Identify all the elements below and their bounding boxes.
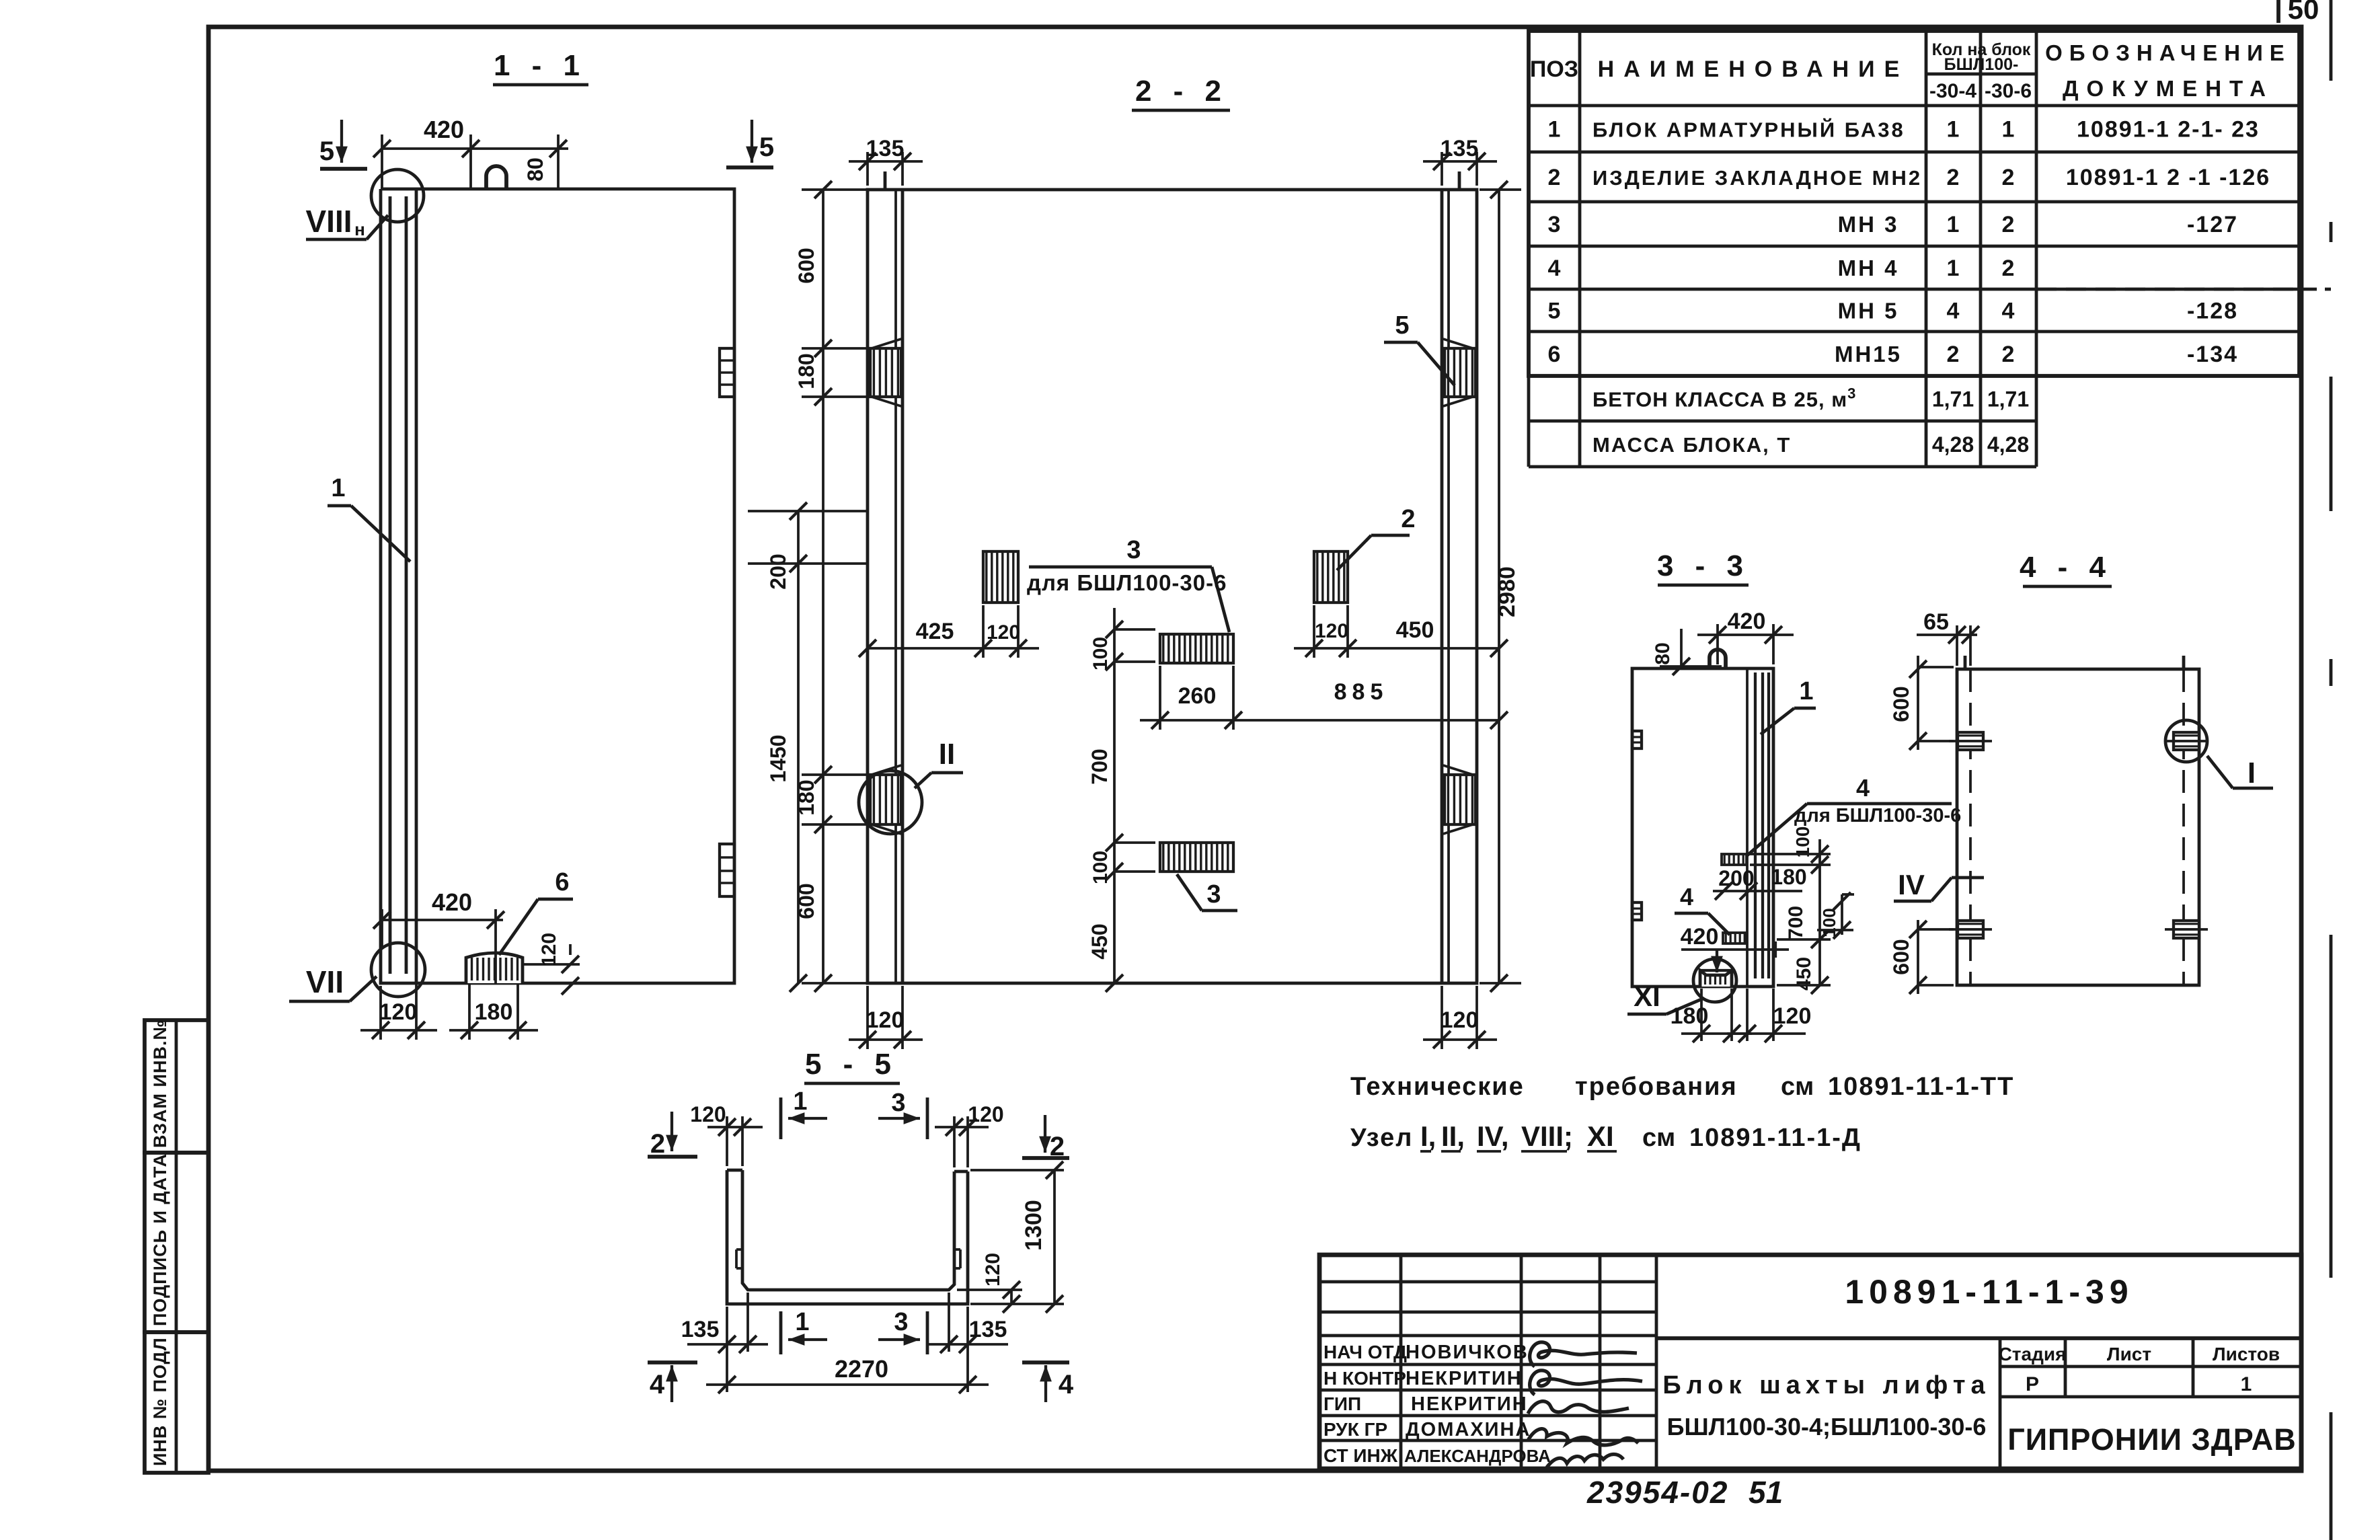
view 2-2 outline <box>868 190 1477 983</box>
svg-text:200: 200 <box>1718 866 1754 890</box>
svg-text:ПОЗ: ПОЗ <box>1530 56 1578 82</box>
view 5-5 embed mark left wall <box>736 1248 742 1251</box>
view 4-4 embed left upper <box>1958 732 1983 750</box>
view 3-3 embed 4 lower <box>1723 933 1746 944</box>
svg-text:4: 4 <box>1548 256 1561 281</box>
svg-text:135: 135 <box>969 1317 1007 1342</box>
view 4-4 node circle I <box>2165 720 2207 762</box>
view 1-1 dim 120 right of block6 <box>523 963 580 966</box>
view 2-2 left wall lines <box>894 190 897 983</box>
view 1-1 embed on right edge upper <box>720 348 734 397</box>
view 2-2 embed MH5 left wall lower <box>870 775 901 824</box>
svg-text:10891-11-1-39: 10891-11-1-39 <box>1845 1273 2133 1311</box>
view 3-3 wall inner edge line <box>1746 668 1749 987</box>
view 2-2 embed block D MH3 lower <box>1160 843 1233 872</box>
svg-text:4: 4 <box>1680 883 1693 911</box>
svg-text:НЕКРИТИН: НЕКРИТИН <box>1411 1393 1528 1415</box>
view 1-1 embed block pos 6 bottom <box>466 953 523 983</box>
svg-text:3 - 3: 3 - 3 <box>1657 549 1750 582</box>
svg-text:180: 180 <box>794 353 818 389</box>
svg-text:-30-4: -30-4 <box>1929 80 1976 102</box>
svg-text:РУК ГР: РУК ГР <box>1323 1419 1387 1440</box>
svg-text:2: 2 <box>1947 342 1960 367</box>
svg-text:700: 700 <box>1785 906 1807 939</box>
left strip divider <box>175 1020 178 1473</box>
title block left grid rows empty <box>1319 1280 1656 1284</box>
svg-text:65: 65 <box>1923 609 1949 635</box>
view 1-1 dim 420 top <box>381 134 383 189</box>
svg-text:Н КОНТР: Н КОНТР <box>1323 1368 1406 1389</box>
view 1-1 dim 80 top <box>557 134 560 189</box>
svg-text:120: 120 <box>968 1102 1003 1126</box>
view 3-3 dim 180 bottom <box>1700 989 1703 1041</box>
page number 50 top right <box>2276 0 2280 23</box>
view 3-3 dim 120 bottom <box>1746 989 1749 1041</box>
svg-text:120: 120 <box>379 999 418 1025</box>
svg-text:180: 180 <box>794 779 818 815</box>
svg-text:СТ ИНЖ: СТ ИНЖ <box>1323 1445 1398 1466</box>
svg-text:50: 50 <box>2288 0 2319 25</box>
svg-text:1: 1 <box>1799 677 1813 705</box>
svg-text:4: 4 <box>1947 299 1960 324</box>
view 2-2 dim 425 120 under block A <box>982 605 985 658</box>
svg-text:5 - 5: 5 - 5 <box>805 1048 898 1081</box>
svg-text:100: 100 <box>1819 908 1839 937</box>
title block outer <box>1319 1255 2301 1469</box>
view 5-5 embed mark right wall <box>954 1248 960 1251</box>
svg-text:1 - 1: 1 - 1 <box>494 49 586 82</box>
svg-text:80: 80 <box>1652 642 1674 664</box>
view 4-4 rebar tick above left <box>1964 656 1967 669</box>
svg-text:420: 420 <box>432 888 472 916</box>
svg-text:420: 420 <box>1681 924 1719 950</box>
svg-text:885: 885 <box>1334 679 1389 705</box>
svg-text:МН15: МН15 <box>1835 342 1902 367</box>
svg-text:600: 600 <box>794 883 818 919</box>
svg-text:Блок шахты лифта: Блок шахты лифта <box>1662 1371 1990 1399</box>
svg-text:МН 5: МН 5 <box>1838 299 1899 323</box>
svg-text:10891-11-1-ТТ: 10891-11-1-ТТ <box>1828 1073 2014 1101</box>
dim chain 200 1450 <box>797 511 800 983</box>
view 5-5 dim 120 slab <box>957 1288 1022 1291</box>
view 5-5 dim 135 bottom right <box>948 1293 950 1352</box>
view 2-2 dim 120 bottom left <box>866 986 869 1049</box>
svg-text:ИЗДЕЛИЕ ЗАКЛАДНОЕ МН2: ИЗДЕЛИЕ ЗАКЛАДНОЕ МН2 <box>1592 166 1922 190</box>
svg-text:135: 135 <box>1441 136 1479 161</box>
view 5-5 dim 1300 right <box>970 1169 1064 1171</box>
svg-text:Технические: Технические <box>1350 1073 1525 1101</box>
svg-text:4: 4 <box>1856 774 1870 802</box>
view 3-3 vertical dims 100 700 450 <box>1818 839 1821 985</box>
svg-text:IV: IV <box>1898 869 1925 900</box>
svg-text:2: 2 <box>2002 165 2015 190</box>
view 5-5 dim 135 bottom left <box>726 1307 728 1392</box>
view 2-2 right wall lines <box>1441 190 1444 983</box>
svg-text:VIII;: VIII; <box>1521 1120 1573 1152</box>
svg-text:1: 1 <box>1947 117 1960 143</box>
svg-text:требования: требования <box>1575 1073 1738 1101</box>
svg-text:10891-1 2 -1 -126: 10891-1 2 -1 -126 <box>2066 165 2270 190</box>
view 4-4 dashed line right <box>2182 669 2185 985</box>
svg-text:120: 120 <box>690 1102 726 1126</box>
view 3-3 dim 200 180 mid <box>1713 890 1802 892</box>
svg-text:БШЛ100-30-4;БШЛ100-30-6: БШЛ100-30-4;БШЛ100-30-6 <box>1667 1413 1987 1440</box>
svg-text:II: II <box>939 738 955 771</box>
svg-text:1: 1 <box>793 1087 807 1116</box>
svg-text:БШЛ100-: БШЛ100- <box>1944 55 2019 74</box>
svg-text:1,71: 1,71 <box>1987 387 2029 412</box>
svg-text:н: н <box>354 219 365 239</box>
svg-text:для БШЛ100-30-6: для БШЛ100-30-6 <box>1794 805 1961 826</box>
svg-text:Узел: Узел <box>1350 1124 1413 1152</box>
svg-text:120: 120 <box>987 621 1020 644</box>
svg-text:135: 135 <box>866 136 905 161</box>
view 2-2 dim 2980 right <box>1480 188 1521 191</box>
view 4-4 outline <box>1957 669 2199 985</box>
svg-text:3: 3 <box>891 1089 905 1117</box>
parts table outer border <box>1529 31 2299 376</box>
view 2-2 vertical dim 100 700 100 450 <box>1113 608 1116 983</box>
title block stage grid <box>1999 1338 2002 1469</box>
view 2-2 dim 260 885 <box>1159 666 1161 730</box>
svg-text:2: 2 <box>2002 342 2015 367</box>
svg-text:БЛОК АРМАТУРНЫЙ БА38: БЛОК АРМАТУРНЫЙ БА38 <box>1592 118 1905 142</box>
svg-text:ДОМАХИНА: ДОМАХИНА <box>1406 1419 1531 1440</box>
view 1-1 dim 420 bottom <box>381 909 383 947</box>
svg-text:100: 100 <box>1089 637 1112 670</box>
svg-text:120: 120 <box>982 1253 1004 1286</box>
svg-text:135: 135 <box>681 1317 720 1342</box>
svg-text:1: 1 <box>1947 212 1960 237</box>
view 4-4 dim 600 lower <box>1918 928 1954 931</box>
svg-text:1: 1 <box>1947 256 1960 281</box>
svg-text:600: 600 <box>1889 939 1913 974</box>
svg-text:1: 1 <box>1548 117 1561 143</box>
view 2-2 embed MH5 right wall lower <box>1445 775 1475 824</box>
svg-text:2: 2 <box>650 1129 665 1159</box>
svg-text:-30-6: -30-6 <box>1985 80 2032 102</box>
view 3-3 node circle XI <box>1693 959 1736 1002</box>
svg-text:4,28: 4,28 <box>1987 432 2029 457</box>
parts table column lines <box>1578 31 1582 467</box>
svg-text:6: 6 <box>555 868 569 896</box>
svg-text:100: 100 <box>1089 851 1112 884</box>
view 4-4 dim 600 upper <box>1918 666 1954 668</box>
svg-text:120: 120 <box>538 933 560 966</box>
svg-text:1450: 1450 <box>766 734 790 782</box>
svg-text:260: 260 <box>1178 683 1217 709</box>
svg-text:ОБОЗНАЧЕНИЕ: ОБОЗНАЧЕНИЕ <box>2045 40 2291 65</box>
view 3-3 armature lines pos 1 <box>1754 672 1757 978</box>
svg-text:II,: II, <box>1441 1120 1465 1152</box>
dim chain 600 180 180 600 <box>822 190 824 983</box>
svg-text:VIII: VIII <box>305 204 352 239</box>
view 2-2 dim 120 450 under block C <box>1313 605 1315 658</box>
svg-text:5: 5 <box>1548 299 1561 324</box>
view 2-2 node circle II <box>859 771 922 834</box>
view 2-2 rebar tick above left wall <box>884 171 887 190</box>
svg-text:2: 2 <box>2002 256 2015 281</box>
svg-text:450: 450 <box>1087 923 1112 959</box>
view 3-3 embed block XI MH15 <box>1700 970 1732 987</box>
svg-text:3: 3 <box>1126 536 1141 564</box>
svg-text:ДОКУМЕНТА: ДОКУМЕНТА <box>2063 76 2274 101</box>
note Узел underlines for node numerals <box>1420 1150 1431 1153</box>
view 5-5 dim 120 top right <box>953 1116 956 1167</box>
svg-text:200: 200 <box>766 553 790 589</box>
svg-text:120: 120 <box>1441 1007 1479 1033</box>
view 2-2 embed MH5 right wall upper <box>1445 348 1475 397</box>
view 2-2 dim 135 top right <box>1441 152 1443 186</box>
svg-text:4: 4 <box>650 1370 665 1399</box>
svg-text:180: 180 <box>1671 1003 1709 1029</box>
view 2-2 embed MH5 left wall upper <box>870 348 901 397</box>
view 3-3 lifting hook <box>1710 650 1726 668</box>
svg-text:1: 1 <box>2241 1373 2252 1395</box>
view 3-3 embed tab left edge upper <box>1632 731 1642 748</box>
svg-text:БЕТОН КЛАССА В 25, м3: БЕТОН КЛАССА В 25, м3 <box>1592 385 1856 412</box>
view 1-1 lifting hook <box>486 166 506 189</box>
svg-text:ПОДПИСЬ И ДАТА: ПОДПИСЬ И ДАТА <box>150 1153 170 1326</box>
svg-text:5: 5 <box>1395 311 1409 340</box>
svg-text:XI: XI <box>1587 1120 1614 1152</box>
view 4-4 embed left lower <box>1958 921 1983 938</box>
svg-text:80: 80 <box>523 157 547 182</box>
svg-text:4: 4 <box>2002 299 2015 324</box>
svg-text:МН 4: МН 4 <box>1838 256 1899 280</box>
svg-text:2270: 2270 <box>835 1355 888 1383</box>
svg-text:600: 600 <box>794 247 818 283</box>
view 1-1 dim 120 bottom <box>379 986 382 1040</box>
svg-text:НОВИЧКОВ: НОВИЧКОВ <box>1406 1342 1529 1363</box>
view 3-3 dim 80 top <box>1660 665 1722 668</box>
svg-text:см: см <box>1642 1124 1675 1152</box>
view 1-1 node circle VIII <box>371 169 424 222</box>
view 5-5 U-channel outline <box>727 1170 968 1304</box>
svg-text:10891-11-1-Д: 10891-11-1-Д <box>1689 1124 1861 1152</box>
svg-text:МАССА БЛОКА, Т: МАССА БЛОКА, Т <box>1592 433 1791 457</box>
view 2-2 dim 135 top left <box>866 152 869 186</box>
view 4-4 embed right upper <box>2174 732 2199 750</box>
svg-text:-128: -128 <box>2187 299 2238 324</box>
view 4-4 dashed line left <box>1969 669 1972 985</box>
sheet edge dashed line right <box>2330 0 2333 81</box>
parts table header Кол на блок subdivider <box>1926 73 2036 76</box>
svg-text:180: 180 <box>475 999 513 1025</box>
svg-text:420: 420 <box>424 116 464 143</box>
svg-text:2980: 2980 <box>1494 566 1520 617</box>
svg-text:180: 180 <box>1771 865 1806 889</box>
svg-text:120: 120 <box>1315 620 1348 642</box>
svg-text:НАЧ ОТД: НАЧ ОТД <box>1323 1342 1407 1362</box>
svg-text:120: 120 <box>1773 1003 1812 1029</box>
view 3-3 outline <box>1632 668 1773 987</box>
svg-text:51: 51 <box>1749 1475 1783 1510</box>
svg-text:2: 2 <box>1947 165 1960 190</box>
view 1-1 wall inner edge line <box>415 189 418 983</box>
svg-text:600: 600 <box>1889 686 1913 722</box>
svg-text:I: I <box>2248 757 2256 790</box>
left strip ВЗАМ ИНВ № <box>145 1020 208 1153</box>
svg-text:ГИП: ГИП <box>1323 1393 1361 1414</box>
svg-text:АЛЕКСАНДРОВА: АЛЕКСАНДРОВА <box>1404 1446 1551 1466</box>
svg-text:см: см <box>1781 1073 1814 1101</box>
svg-text:ГИПРОНИИ ЗДРАВ: ГИПРОНИИ ЗДРАВ <box>2007 1422 2297 1457</box>
svg-text:МН 3: МН 3 <box>1838 212 1899 237</box>
svg-text:НЕКРИТИН: НЕКРИТИН <box>1406 1368 1523 1389</box>
svg-text:для БШЛ100-30-6: для БШЛ100-30-6 <box>1027 570 1227 595</box>
svg-text:Листов: Листов <box>2213 1344 2280 1364</box>
svg-text:120: 120 <box>866 1007 905 1033</box>
svg-text:IV,: IV, <box>1477 1120 1509 1152</box>
svg-text:3: 3 <box>1206 880 1221 909</box>
svg-text:6: 6 <box>1548 342 1561 367</box>
view 4-4 embed right lower <box>2174 921 2199 938</box>
svg-text:420: 420 <box>1728 609 1766 634</box>
svg-text:XI: XI <box>1634 980 1660 1012</box>
svg-text:450: 450 <box>1396 617 1434 643</box>
svg-text:4 - 4: 4 - 4 <box>2020 551 2112 584</box>
view 3-3 dim 420 top <box>1716 624 1719 664</box>
view 1-1 armature block lines pos1 <box>389 196 392 974</box>
svg-text:2 - 2: 2 - 2 <box>1135 75 1228 108</box>
svg-text:2: 2 <box>2002 212 2015 237</box>
svg-text:1: 1 <box>331 474 345 502</box>
view 2-2 embed block C MH2 <box>1314 551 1348 603</box>
view 2-2 rebar tick above right wall <box>1458 171 1461 190</box>
svg-text:ВЗАМ ИНВ.№: ВЗАМ ИНВ.№ <box>150 1019 170 1148</box>
svg-text:1: 1 <box>795 1308 809 1336</box>
svg-text:2: 2 <box>1401 505 1415 533</box>
svg-text:5: 5 <box>319 137 334 166</box>
left strip ИНВ № ПОДЛ <box>145 1332 208 1473</box>
view 1-1 node circle VII <box>371 943 425 997</box>
svg-text:НАИМЕНОВАНИЕ: НАИМЕНОВАНИЕ <box>1598 56 1909 82</box>
view 4-4 rebar tick above right <box>2182 656 2186 669</box>
view 5-5 dim 2270 <box>706 1383 989 1386</box>
svg-text:Р: Р <box>2026 1373 2039 1395</box>
svg-text:Стадия: Стадия <box>1999 1344 2067 1364</box>
svg-text:VII: VII <box>306 964 344 999</box>
view 3-3 embed 4 upper <box>1722 854 1746 865</box>
view 1-1 embed on right edge lower <box>720 844 734 896</box>
view 2-2 embed block B MH3 <box>1160 634 1233 663</box>
view 3-3 vertical dim 100 right <box>1841 894 1843 935</box>
svg-text:-127: -127 <box>2187 212 2238 237</box>
svg-text:10891-1 2-1- 23: 10891-1 2-1- 23 <box>2077 117 2260 143</box>
view 5-5 dim 120 top left <box>726 1116 728 1166</box>
svg-text:3: 3 <box>894 1308 908 1336</box>
view 2-2 dim 120 bottom right <box>1441 986 1443 1049</box>
svg-text:1300: 1300 <box>1021 1200 1046 1251</box>
svg-text:23954-02: 23954-02 <box>1586 1475 1728 1510</box>
svg-text:ИНВ № ПОДЛ: ИНВ № ПОДЛ <box>150 1337 170 1466</box>
left strip ПОДПИСЬ И ДАТА <box>145 1153 208 1332</box>
view 2-2 embed block A MH3-30-6 <box>983 551 1018 603</box>
svg-text:5: 5 <box>759 132 774 162</box>
svg-text:700: 700 <box>1087 748 1112 784</box>
svg-text:I,: I, <box>1420 1120 1436 1152</box>
svg-text:4,28: 4,28 <box>1932 432 1974 457</box>
svg-text:425: 425 <box>916 619 954 644</box>
title block doc number band line <box>1656 1336 2301 1340</box>
svg-text:2: 2 <box>1548 165 1561 190</box>
svg-text:Лист: Лист <box>2107 1344 2151 1364</box>
view 1-1 dim 180 bottom <box>468 983 471 1040</box>
view 1-1 outline <box>381 189 734 983</box>
svg-text:3: 3 <box>1548 212 1561 237</box>
svg-text:-134: -134 <box>2187 342 2238 367</box>
view 3-3 embed tab left edge lower <box>1632 902 1642 920</box>
title block left grid columns <box>1399 1255 1403 1469</box>
title block left grid rows names <box>1319 1363 1656 1366</box>
parts table row lines <box>1529 104 2299 108</box>
svg-text:1: 1 <box>2002 117 2015 143</box>
svg-text:4: 4 <box>1059 1370 1074 1399</box>
svg-text:1,71: 1,71 <box>1932 387 1974 412</box>
